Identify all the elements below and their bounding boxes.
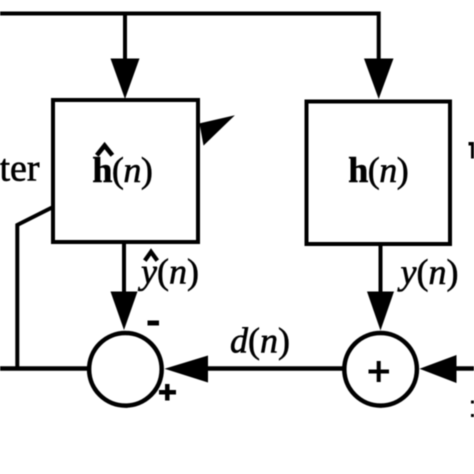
wire W9: near-end input into S2 from right bbox=[455, 366, 474, 371]
svg-text:y(n): y(n) bbox=[398, 252, 459, 292]
wire W3: ĥ(n) output down bbox=[122, 242, 126, 294]
svg-text:h(n): h(n) bbox=[92, 150, 152, 190]
summer S1 (left circle, error subtractor) bbox=[89, 333, 162, 406]
label ĥ(n) bbox=[92, 146, 152, 190]
minus sign at S1 top-right bbox=[148, 321, 160, 326]
plus sign at S1 bottom-right bbox=[159, 384, 176, 401]
label ŷ(n) bbox=[138, 251, 199, 291]
svg-text:h(n): h(n) bbox=[348, 150, 408, 190]
summer S2 (right circle, adds near-end signal) bbox=[344, 333, 417, 406]
arrowhead of y(n) into summer S2 bbox=[367, 292, 394, 331]
svg-text:ter: ter bbox=[0, 148, 40, 190]
arrowhead of ŷ(n) into summer S1 bbox=[111, 292, 138, 331]
adaptation arrowhead on U1 bbox=[200, 115, 235, 145]
wire W5: error output e(n) to the left bbox=[0, 366, 88, 371]
block U2: echo path h(n) bbox=[307, 102, 451, 245]
wire W2: vertical drop from bus into adaptive filter bbox=[123, 14, 127, 62]
label fragment at right edge (cropped letter stem) bbox=[469, 142, 474, 159]
block U1: adaptive filter ĥ(n) bbox=[53, 100, 198, 242]
arrowhead into block ĥ(n) bbox=[111, 59, 140, 100]
arrowhead into block h(n) bbox=[364, 59, 394, 100]
label fragment at bottom-right edge (cropped letter) bbox=[471, 401, 474, 418]
arrowhead of d(n) into S1 bbox=[165, 356, 209, 383]
wire W8: d(n) line from S2 to S1 bbox=[207, 366, 343, 371]
wire W4: h(n) output down bbox=[379, 244, 383, 294]
wire W6: error feedback vertical riser bbox=[15, 224, 19, 371]
svg-text:d(n): d(n) bbox=[230, 320, 290, 360]
plus sign inside S2 bbox=[369, 361, 390, 382]
wire W1: top horizontal input bus with corner down toward h(n) bbox=[0, 14, 379, 62]
wire W7: feedback diagonal into adaptive filter bbox=[16, 207, 53, 226]
arrowhead into S2 bbox=[420, 355, 457, 383]
